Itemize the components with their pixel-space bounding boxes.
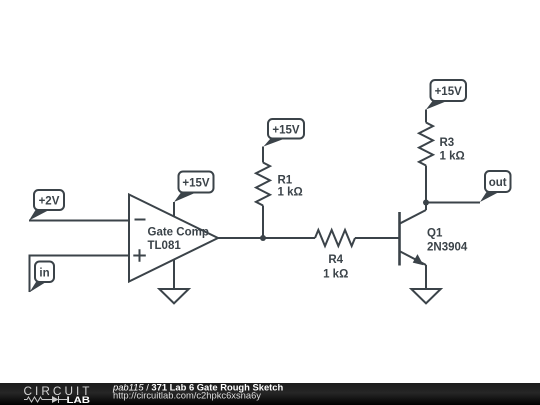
CircuitLab logo (24, 384, 91, 405)
wire: +15V flag to R3 top (425, 110, 427, 123)
resistor R4 (315, 230, 355, 246)
op-amp U1 (129, 195, 218, 282)
svg-text:http://circuitlab.com/c2hpkc6x: http://circuitlab.com/c2hpkc6xsna6y (113, 390, 261, 401)
ground (op-amp V-) (159, 289, 188, 303)
svg-text:1 kΩ: 1 kΩ (323, 268, 348, 280)
flag +15V (R3 top) (426, 80, 466, 110)
node: collector junction (423, 200, 429, 206)
wire: Q1 emitter down to ground (425, 265, 427, 289)
transistor Q1 (400, 210, 427, 266)
flag +2V (29, 190, 64, 221)
svg-text:Gate Comp: Gate Comp (148, 227, 209, 239)
wire: collector node to out flag (426, 202, 480, 204)
flag in (30, 262, 55, 293)
wire: op-amp V- pin to ground (173, 259, 175, 289)
svg-text:LAB: LAB (67, 395, 91, 405)
resistor R3 (419, 123, 433, 166)
svg-text:+2V: +2V (39, 196, 60, 208)
R3 value label (440, 137, 465, 163)
svg-text:R3: R3 (440, 137, 455, 149)
wire: in to op-amp non-inverting input (30, 256, 130, 293)
wire: R3 bottom to collector node (425, 166, 427, 203)
wire: op-amp V+ pin to +15V flag (173, 202, 175, 217)
op-amp U1 name label (148, 227, 209, 253)
wire: R1 bottom to output net (262, 206, 264, 239)
svg-text:in: in (39, 268, 49, 280)
flag +15V (op-amp V+) (174, 172, 214, 203)
svg-text:R4: R4 (328, 254, 343, 266)
svg-text:out: out (489, 177, 507, 189)
wire: R1 top to +15V flag (262, 147, 264, 163)
R4 value label (323, 254, 348, 280)
svg-text:+15V: +15V (435, 86, 463, 98)
svg-text:+15V: +15V (272, 125, 300, 137)
svg-text:1 kΩ: 1 kΩ (440, 151, 465, 163)
svg-text:Q1: Q1 (427, 228, 443, 240)
resistor R1 (256, 163, 270, 206)
svg-text:+15V: +15V (182, 178, 210, 190)
svg-text:TL081: TL081 (148, 240, 182, 252)
svg-text:2N3904: 2N3904 (427, 242, 468, 254)
wire: collector node down to Q1 collector (425, 203, 427, 211)
wire: op-amp output to R4 left (218, 237, 315, 239)
node: output net junction (260, 235, 266, 241)
footer title text (112, 382, 284, 401)
wire: R4 right to Q1 base (355, 237, 399, 239)
flag out (480, 171, 511, 202)
ground (Q1 emitter) (411, 289, 440, 303)
wire: +2V to op-amp inverting input (29, 220, 129, 222)
flag +15V (R1 top) (264, 119, 305, 147)
svg-text:1 kΩ: 1 kΩ (278, 187, 303, 199)
Q1 name label (427, 228, 468, 254)
svg-text:R1: R1 (278, 175, 293, 187)
R1 value label (278, 175, 303, 199)
